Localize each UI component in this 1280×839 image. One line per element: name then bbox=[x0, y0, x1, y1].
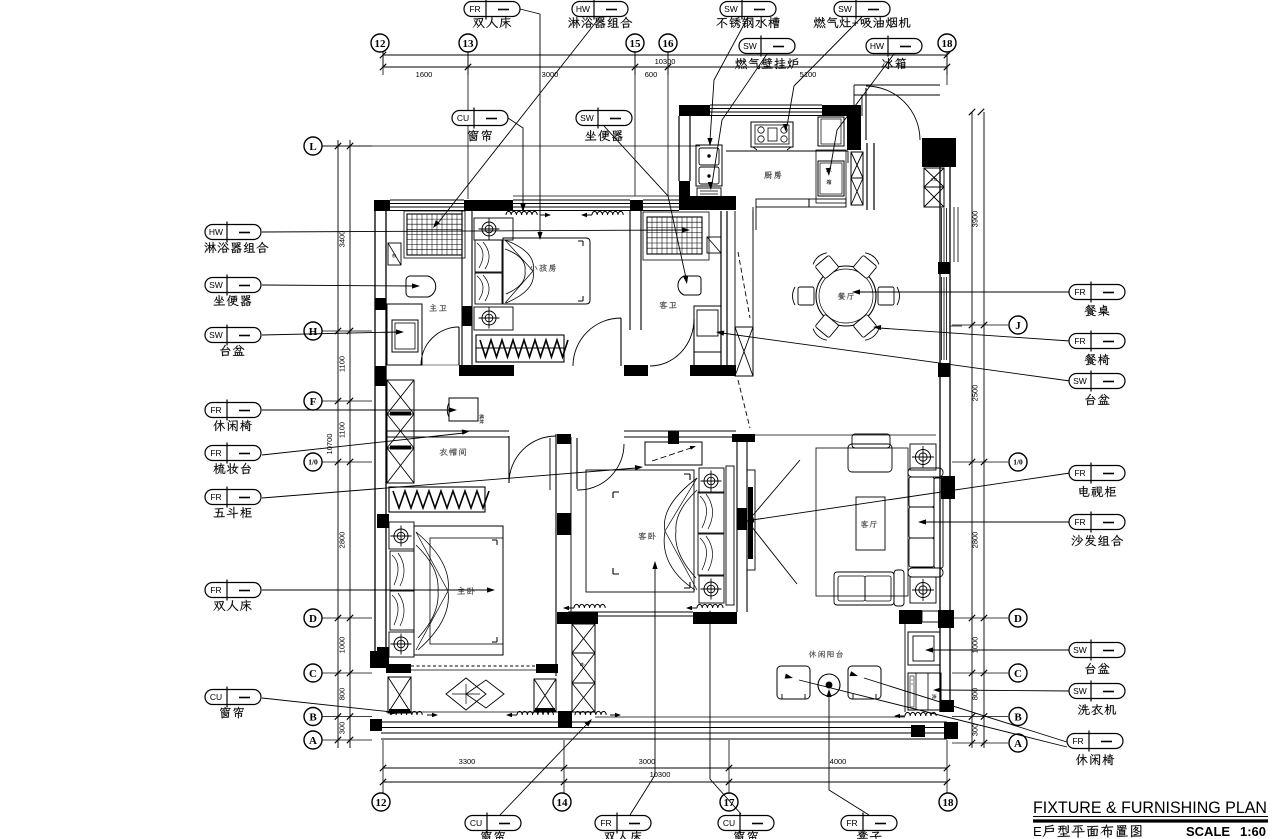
callout pill HW 淋浴器组合 left bbox=[205, 225, 261, 240]
leader right FR lounge chair to balcony chairs bbox=[864, 678, 1070, 743]
master bedroom label bbox=[457, 587, 474, 595]
callout pill FR 凳子 bottom bbox=[841, 816, 897, 831]
hallway cabinet X box bbox=[735, 327, 753, 376]
TV viewing angle lines bbox=[748, 460, 800, 521]
wall kids room / guest bath bbox=[629, 211, 631, 330]
callout pill FR 餐椅 right bbox=[1069, 334, 1125, 349]
kitchen counters and appliances bbox=[726, 150, 848, 152]
svg-text:3900: 3900 bbox=[971, 211, 980, 228]
balcony round stool bbox=[818, 674, 840, 696]
leader right FR TV cabinet bbox=[752, 473, 1070, 520]
svg-text:SW: SW bbox=[209, 280, 223, 290]
kids bed quilt corner hooks bbox=[578, 241, 583, 301]
callout pill CU 窗帘 bottom1 bbox=[465, 816, 521, 831]
callout pill SW 坐便器 left bbox=[205, 278, 261, 293]
leader bottom CU curtain 2 bbox=[710, 616, 741, 814]
callout pill FR 双人床 bottom bbox=[595, 816, 651, 831]
svg-text:FR: FR bbox=[469, 4, 480, 14]
leader left SW toilet bbox=[262, 285, 414, 286]
callout pill SW 燃气灶+吸油烟机 top bbox=[834, 2, 890, 17]
bottom dimension lines bbox=[383, 767, 947, 769]
dining table round bbox=[816, 266, 876, 326]
master suite top wall with door bbox=[386, 430, 509, 432]
door arc master bath bbox=[458, 327, 460, 365]
svg-text:FR: FR bbox=[210, 585, 221, 595]
guest bath sink cabinet bbox=[694, 306, 721, 352]
callout pill SW 台盆 right laundry bbox=[1069, 643, 1125, 658]
TV cabinet on living wall bbox=[747, 470, 755, 570]
svg-text:1/0: 1/0 bbox=[308, 458, 318, 467]
svg-text:CU: CU bbox=[210, 692, 222, 702]
dining label bbox=[838, 292, 854, 299]
svg-text:10700: 10700 bbox=[325, 434, 334, 455]
kitchen corner black L wall bbox=[829, 105, 857, 116]
svg-text:SW: SW bbox=[838, 4, 852, 14]
svg-text:2800: 2800 bbox=[971, 532, 980, 549]
kids room curtains bbox=[506, 211, 537, 215]
svg-text:2800: 2800 bbox=[338, 532, 347, 549]
svg-text:3000: 3000 bbox=[639, 757, 656, 766]
leader HW fridge bbox=[830, 54, 894, 170]
svg-text:SW: SW bbox=[1073, 686, 1087, 696]
leader bottom CU curtain bbox=[500, 723, 588, 815]
svg-text:13: 13 bbox=[463, 38, 475, 50]
svg-text:2500: 2500 bbox=[971, 385, 980, 402]
living room rug bbox=[816, 448, 908, 596]
subtitle E户型平面布置图 bbox=[1033, 824, 1142, 839]
master bath corner shelf bbox=[388, 243, 401, 265]
leader left CU curtain to balcony curtain bbox=[262, 698, 392, 712]
callout pill FR 休闲椅 left bbox=[205, 403, 261, 418]
callout pill SW 台盆 left bbox=[205, 328, 261, 343]
svg-text:XG: XG bbox=[931, 177, 938, 182]
svg-text:1000: 1000 bbox=[971, 637, 980, 654]
master nightstand top bbox=[389, 522, 414, 549]
living side table bottom with symbol bbox=[910, 577, 936, 603]
balcony chair left bbox=[777, 666, 810, 699]
guest bed nightstand top bbox=[699, 468, 724, 493]
kids room nightstand top with ceiling symbol bbox=[474, 218, 513, 240]
callout pill FR 电视柜 right bbox=[1069, 466, 1125, 481]
master bath label bbox=[429, 304, 446, 311]
leader top FR double bed to kids bed bbox=[520, 9, 540, 14]
kids bed fan folds bbox=[505, 240, 533, 303]
right dimension lines bbox=[971, 112, 973, 748]
kids room nightstand bottom with ceiling symbol bbox=[474, 307, 513, 330]
kids room label bbox=[530, 264, 556, 272]
right exterior wall bbox=[939, 143, 941, 712]
kitchen double sink bbox=[696, 145, 722, 186]
svg-text:E: E bbox=[1033, 824, 1042, 839]
door arc guest bath bbox=[693, 319, 695, 366]
svg-text:+: + bbox=[852, 16, 859, 30]
callout pill SW 不锈钢水槽 top bbox=[720, 2, 776, 17]
svg-text:FR: FR bbox=[210, 492, 221, 502]
guest bedroom curtains bbox=[574, 604, 605, 608]
svg-text:A: A bbox=[309, 735, 317, 747]
svg-text:10300: 10300 bbox=[655, 57, 676, 66]
callout pill CU 窗帘 left bbox=[205, 690, 261, 705]
svg-text:C: C bbox=[309, 668, 317, 680]
svg-text:FR: FR bbox=[846, 818, 857, 828]
svg-text:18: 18 bbox=[942, 38, 954, 50]
master wardrobe zigzag bbox=[389, 487, 485, 512]
kids bed bbox=[503, 238, 590, 304]
leader right FR dining table bbox=[858, 291, 1070, 293]
leader right SW washing machine bbox=[939, 690, 1070, 691]
svg-text:FR: FR bbox=[1074, 336, 1085, 346]
washer room left wall bbox=[904, 624, 906, 712]
svg-text:SW: SW bbox=[1073, 645, 1087, 655]
svg-text:SCALE: SCALE bbox=[1186, 824, 1230, 839]
svg-text:15: 15 bbox=[630, 38, 642, 50]
callout pill FR 沙发组合 right bbox=[1069, 515, 1125, 530]
leader top SW gas stove to stove bbox=[787, 17, 862, 126]
svg-text:800: 800 bbox=[971, 688, 980, 701]
svg-text:H: H bbox=[309, 326, 318, 338]
svg-text:HW: HW bbox=[209, 227, 223, 237]
leader left FR drawers chest to guest-bedroom chest bbox=[262, 468, 636, 498]
grid line from L into plan bbox=[322, 145, 700, 147]
leader left HW shower combo to guest shower bbox=[262, 230, 684, 232]
svg-text:HW: HW bbox=[576, 4, 590, 14]
entry top wall and door bbox=[854, 84, 940, 86]
svg-text:CU: CU bbox=[470, 818, 482, 828]
svg-text:3400: 3400 bbox=[338, 231, 347, 248]
grid bubbles bottom: 12 14 17 18 bbox=[372, 793, 390, 811]
svg-text:A: A bbox=[1014, 738, 1022, 750]
guest bedroom top wall with door bbox=[668, 431, 679, 444]
svg-text:12: 12 bbox=[375, 38, 387, 50]
svg-text:FR: FR bbox=[1074, 287, 1085, 297]
X-hatch cabinet in kitchen nook bbox=[851, 152, 863, 178]
door arc kids room bbox=[620, 318, 622, 366]
master bed bbox=[414, 526, 503, 655]
guest bed quilt bbox=[586, 470, 694, 592]
guest bed nightstand bottom bbox=[699, 576, 724, 603]
balcony label bbox=[809, 650, 843, 657]
leader right FR sofa set bbox=[924, 521, 1070, 523]
washing machine bbox=[908, 673, 941, 710]
leader left FR dressing table bbox=[262, 433, 464, 455]
guest bath label bbox=[659, 301, 676, 309]
balcony chair right bbox=[848, 666, 881, 699]
callout pill FR 休闲椅 right bbox=[1067, 734, 1123, 749]
guest bed fan folds bbox=[664, 478, 697, 590]
callout pill FR 双人床 left bbox=[205, 583, 261, 598]
living sofa right bbox=[934, 478, 943, 568]
living coffee table bbox=[856, 497, 885, 550]
master bath shower tray with grid bbox=[407, 214, 462, 255]
leader right SW basin to laundry basin bbox=[931, 649, 1070, 651]
svg-text:12: 12 bbox=[376, 797, 388, 809]
svg-text:FR: FR bbox=[1074, 468, 1085, 478]
svg-text:600: 600 bbox=[645, 70, 658, 79]
kids room wardrobe with hanger zigzag bbox=[476, 335, 564, 362]
svg-text:SW: SW bbox=[580, 113, 594, 123]
kitchen walls bbox=[679, 105, 710, 116]
leader bottom FR stool bbox=[829, 692, 869, 815]
leader SW wall boiler bbox=[712, 54, 767, 184]
gas boiler bbox=[697, 188, 721, 199]
callout pill FR 餐桌 right bbox=[1069, 285, 1125, 300]
grid bubbles right: J I/0 D C B A bbox=[1009, 316, 1027, 334]
beam line dining-living boundary bbox=[755, 434, 936, 436]
svg-text:10300: 10300 bbox=[650, 770, 671, 779]
wall master-bath / kids room bbox=[461, 211, 463, 365]
callout pill SW 台盆 right bbox=[1069, 374, 1125, 389]
svg-text:3300: 3300 bbox=[459, 757, 476, 766]
living loveseat bottom bbox=[834, 572, 894, 605]
svg-text:SW: SW bbox=[724, 4, 738, 14]
callout pill SW 洗衣机 right bbox=[1069, 684, 1125, 699]
grid bubbles top: 12 13 15 16 18 bbox=[382, 52, 384, 67]
master bed quilt bbox=[430, 538, 503, 644]
balcony X box mid bbox=[534, 679, 556, 712]
svg-text:C: C bbox=[1014, 668, 1022, 680]
kids bed pillows bbox=[475, 240, 502, 272]
bedroom balcony planter X box bbox=[388, 677, 411, 713]
living room bottom wall bbox=[899, 610, 922, 624]
svg-text:1000: 1000 bbox=[338, 637, 347, 654]
svg-text:FR: FR bbox=[600, 818, 611, 828]
svg-text:14: 14 bbox=[557, 797, 569, 809]
leader left FR double bed to master bed bbox=[262, 589, 489, 591]
svg-text:1100: 1100 bbox=[338, 356, 347, 372]
svg-text:F: F bbox=[310, 396, 317, 408]
fridge upper cabinet bbox=[818, 117, 844, 146]
master bed fan folds bbox=[416, 532, 448, 650]
entry corner black wall bbox=[922, 138, 956, 167]
svg-text:HW: HW bbox=[870, 41, 884, 51]
living room label bbox=[861, 521, 877, 528]
guest bath right wall bbox=[720, 211, 722, 365]
leader top SW steel sink to kitchen sink bbox=[710, 17, 748, 140]
svg-text:J: J bbox=[1015, 320, 1021, 332]
leader SW toilet to guest toilet bbox=[604, 126, 686, 278]
guest bed headboard bbox=[726, 466, 734, 605]
svg-text:800: 800 bbox=[338, 688, 347, 701]
callout pill SW 坐便器 top bbox=[576, 111, 632, 126]
svg-text:SW: SW bbox=[1073, 376, 1087, 386]
master nightstand bottom bbox=[389, 632, 414, 657]
svg-text:3000: 3000 bbox=[542, 70, 559, 79]
left exterior wall bbox=[374, 211, 376, 668]
svg-text:FR: FR bbox=[210, 405, 221, 415]
grid bubbles left: L H F I/0 D C B A bbox=[304, 137, 322, 155]
top dimension lines bbox=[383, 54, 947, 56]
svg-text:CU: CU bbox=[457, 113, 469, 123]
guest bath toilet bbox=[678, 276, 701, 295]
tall cabinet between balconies bbox=[572, 624, 595, 653]
master bed pillows bbox=[390, 551, 414, 590]
guest bedroom dresser with mirror arrow bbox=[645, 442, 702, 465]
svg-text:B: B bbox=[309, 711, 317, 723]
callout pill FR 双人床 top bbox=[464, 2, 520, 17]
svg-text:SW: SW bbox=[743, 41, 757, 51]
walk-in closet X wardrobe column bbox=[387, 380, 414, 414]
callout pill FR 五斗柜 left bbox=[205, 490, 261, 505]
svg-text:FR: FR bbox=[210, 448, 221, 458]
svg-text:16: 16 bbox=[663, 38, 675, 50]
guest bed pillows bbox=[698, 492, 724, 533]
callout pill HW 冰箱 bbox=[866, 39, 922, 54]
leader left SW basin bbox=[262, 332, 398, 335]
dressing table bbox=[449, 398, 478, 421]
entry shoe cabinet with X hatch bbox=[924, 168, 944, 187]
guest bedroom label bbox=[638, 532, 655, 540]
svg-text:17: 17 bbox=[724, 797, 736, 809]
wall below kitchen toward dining bbox=[756, 199, 809, 207]
svg-text:300: 300 bbox=[971, 724, 980, 737]
callout pill CU 窗帘 top bbox=[452, 111, 508, 126]
svg-text:FIXTURE & FURNISHING PLAN: FIXTURE & FURNISHING PLAN bbox=[1033, 798, 1267, 817]
corridor top wall (= bottom wall of baths & kids room) bbox=[386, 364, 421, 366]
dining chairs bbox=[811, 251, 839, 279]
exterior top wall of bedroom block (windows + black piers) bbox=[374, 200, 390, 211]
guest bedroom bottom wall bbox=[557, 612, 598, 624]
leader left FR lounge chair to dressing stool bbox=[262, 409, 450, 411]
callout pill HW 淋浴器组合 top bbox=[572, 2, 628, 17]
bedroom balcony pillows decor bbox=[446, 678, 486, 710]
callout pill CU 窗帘 bottom2 bbox=[718, 816, 774, 831]
master bedroom bottom wall bbox=[370, 651, 387, 668]
guest bath shower tray with grid bbox=[647, 217, 702, 254]
svg-text:1/0: 1/0 bbox=[1013, 458, 1023, 467]
leader right SW basin to guest bath sink bbox=[722, 333, 1070, 381]
svg-text:1:60: 1:60 bbox=[1240, 824, 1266, 839]
svg-text:300: 300 bbox=[338, 722, 347, 735]
dining window sill lines bbox=[953, 207, 955, 262]
stove with burners bbox=[751, 122, 793, 147]
svg-text:D: D bbox=[309, 613, 317, 625]
master bath door sill bbox=[421, 364, 459, 366]
svg-text:1600: 1600 bbox=[416, 70, 433, 79]
kitchen label bbox=[764, 171, 781, 179]
balcony outer window band bbox=[381, 721, 947, 723]
svg-text:18: 18 bbox=[943, 797, 955, 809]
master bath sink cabinet bbox=[387, 304, 422, 365]
leader CU curtain to kids window bbox=[508, 118, 523, 206]
svg-text:L: L bbox=[309, 141, 316, 153]
living side table top with symbol bbox=[910, 444, 936, 470]
bedroom balcony inner line bbox=[386, 711, 558, 713]
master bath toilet bbox=[406, 276, 436, 297]
svg-text:FR: FR bbox=[1072, 736, 1083, 746]
svg-text:B: B bbox=[1014, 711, 1022, 723]
center wall master bedroom / guest bedroom bbox=[549, 438, 551, 490]
svg-text:4000: 4000 bbox=[830, 757, 847, 766]
svg-text:1100: 1100 bbox=[338, 422, 347, 438]
living armchair top bbox=[852, 434, 890, 448]
closet label bbox=[439, 448, 465, 456]
callout pill FR 梳妆台 left bbox=[205, 446, 261, 461]
callout pill SW 燃气壁挂炉 bbox=[739, 39, 795, 54]
leader top HW shower combo to master shower bbox=[438, 17, 600, 223]
leader right FR dining chair bbox=[879, 328, 1070, 341]
wall guest bedroom / living room bbox=[736, 434, 738, 612]
left dimension lines bbox=[337, 140, 339, 748]
leader bottom FR double bed to guest bed bbox=[630, 567, 655, 815]
svg-text:D: D bbox=[1014, 613, 1022, 625]
fridge bbox=[816, 150, 846, 203]
svg-text:SW: SW bbox=[209, 330, 223, 340]
svg-text:CU: CU bbox=[723, 818, 735, 828]
curtain squiggles balcony bbox=[391, 711, 422, 715]
laundry basin cabinet bbox=[908, 632, 940, 665]
guest bath corner shelf bbox=[707, 237, 721, 253]
svg-text:FR: FR bbox=[1074, 517, 1085, 527]
